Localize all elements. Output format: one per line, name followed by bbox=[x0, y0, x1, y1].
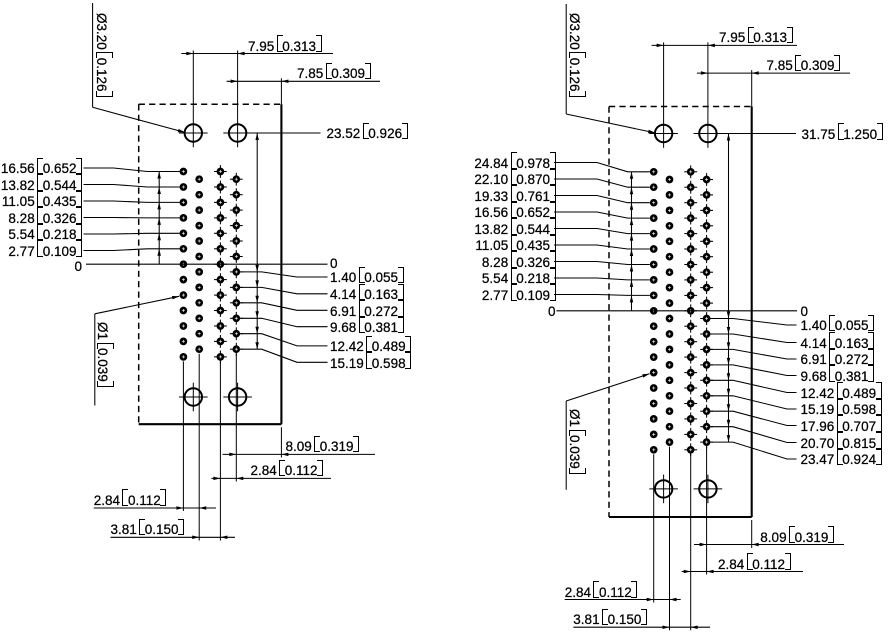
right dimension 7.85 [0.309] mounting hole to edge bbox=[697, 70, 850, 106]
row label 5.54 [0.218] left drawing bbox=[8, 228, 82, 242]
right note Ø3.20 [0.126] leader to mounting hole bbox=[566, 4, 655, 133]
right note Ø1 [0.039] leader to pin hole bbox=[566, 374, 649, 490]
row label 8.28 [0.326] right drawing bbox=[482, 256, 556, 270]
right leader lines from column 4 holes to right row labels bbox=[711, 319, 797, 460]
right mounting hole top-right Ø3.20 bbox=[699, 125, 716, 142]
row label 24.84 [0.978] right drawing bbox=[474, 157, 555, 171]
row label 0 left drawing (left side) bbox=[74, 260, 82, 274]
label Ø3.20 [0.126] left drawing (rotated) bbox=[94, 13, 108, 97]
label 2.84 [0.112] upper right drawing bbox=[718, 558, 791, 572]
row label 17.96 [0.707] right drawing bbox=[801, 420, 882, 434]
label 3.81 [0.150] left drawing bbox=[111, 523, 185, 537]
row label 13.82 [0.544] left drawing bbox=[1, 179, 82, 193]
label Ø1 [0.039] left drawing (rotated) bbox=[95, 322, 109, 387]
right dimension 2.84 [0.112] column 1 to column 2 bbox=[565, 598, 681, 601]
row label 11.05 [0.435] left drawing bbox=[2, 195, 82, 209]
right connector body outline (dashed top/left, solid right/bottom) bbox=[609, 107, 752, 518]
left dimension 2.84 [0.112] column 1 to column 2 bbox=[94, 506, 216, 510]
right dimension 8.09 [0.319] column 4 to edge bbox=[694, 520, 844, 548]
left dimension 3.81 [0.150] column 2 to column 3 bbox=[111, 536, 236, 540]
right pin hole column 1 (Ø1) bbox=[650, 168, 658, 454]
label 2.84 [0.112] upper left drawing bbox=[251, 464, 324, 478]
left dimension 7.95 [0.313] between mounting holes bbox=[181, 51, 333, 148]
label 7.85 [0.309] left drawing bbox=[297, 67, 371, 81]
row label 22.10 [0.870] right drawing bbox=[474, 173, 555, 187]
row label 2.77 [0.109] right drawing bbox=[482, 289, 556, 303]
right dimension 3.81 [0.150] column 2 to column 3 bbox=[573, 626, 710, 630]
row label 4.14 [0.163] left drawing bbox=[330, 288, 404, 302]
right stacked dimension arrows right (31.75 [1.250] and rows below row 0) bbox=[727, 134, 730, 443]
left stacked dimension arrows right (23.52 [0.926] and rows below row 0) bbox=[255, 133, 259, 349]
row label 2.77 [0.109] left drawing bbox=[8, 245, 82, 259]
label 7.85 [0.309] right drawing bbox=[767, 59, 841, 73]
label Ø3.20 [0.126] right drawing (rotated) bbox=[567, 13, 581, 97]
row label 13.82 [0.544] right drawing bbox=[474, 223, 555, 237]
row label 0 left drawing (right side) bbox=[330, 257, 338, 271]
left note Ø3.20 [0.126] leader to mounting hole bbox=[93, 3, 185, 132]
left pin hole column 4 (Ø1) bbox=[230, 173, 243, 356]
label 7.95 [0.313] left drawing bbox=[248, 40, 322, 54]
right row 0 datum line bbox=[557, 310, 798, 312]
right mounting hole centerline / leader to 31.75 [1.250] bbox=[649, 133, 796, 135]
label 23.52 [0.926] left drawing bbox=[327, 127, 408, 141]
row label 19.33 [0.761] right drawing bbox=[474, 190, 555, 204]
left stacked dimension arrows left (rows above row 0) bbox=[157, 172, 161, 265]
left row 0 datum line bbox=[86, 263, 328, 265]
left mounting hole bottom-left Ø3.20 bbox=[179, 383, 208, 412]
right extension lines from pin columns to bottom dimensions bbox=[654, 447, 707, 631]
left mounting hole bottom-right Ø3.20 bbox=[223, 383, 252, 412]
label 7.95 [0.313] right drawing bbox=[719, 31, 793, 45]
right pin hole column 2 (Ø1) bbox=[666, 176, 674, 446]
row label 9.68 [0.381] right drawing bbox=[801, 370, 875, 384]
row label 16.56 [0.652] left drawing bbox=[1, 162, 82, 176]
row label 15.19 [0.598] right drawing bbox=[801, 403, 882, 417]
label 8.09 [0.319] right drawing bbox=[760, 531, 834, 545]
right mounting hole bottom-left Ø3.20 bbox=[649, 475, 678, 504]
row label 1.40 [0.055] left drawing bbox=[330, 271, 404, 285]
left dimension 7.85 [0.309] mounting hole to edge bbox=[227, 78, 380, 104]
row label 5.54 [0.218] right drawing bbox=[482, 272, 556, 286]
left pin hole column 3 (Ø1) bbox=[214, 165, 227, 363]
left pin hole column 2 (Ø1) bbox=[195, 175, 203, 353]
label 8.09 [0.319] left drawing bbox=[286, 440, 360, 454]
left dimension 8.09 [0.319] column 4 to edge bbox=[223, 427, 376, 457]
row label 12.42 [0.489] right drawing bbox=[801, 387, 882, 401]
row label 20.70 [0.815] right drawing bbox=[801, 437, 882, 451]
left connector body outline (dashed top/left, solid right/bottom) bbox=[139, 104, 282, 424]
label 2.84 [0.112] lower right drawing bbox=[565, 586, 638, 600]
right mounting hole bottom-right Ø3.20 bbox=[694, 475, 723, 504]
right dimension 2.84 [0.112] column 3 to column 4 bbox=[682, 570, 803, 573]
row label 6.91 [0.272] right drawing bbox=[801, 353, 875, 367]
row label 1.40 [0.055] right drawing bbox=[801, 319, 875, 333]
left leader lines from column 4 holes to right row labels bbox=[241, 272, 328, 362]
left leader lines from left row labels to column 1 holes bbox=[84, 168, 180, 251]
left dimension 2.84 [0.112] column 3 to column 4 bbox=[211, 477, 331, 481]
label 31.75 [1.250] right drawing bbox=[802, 128, 883, 142]
left note Ø1 [0.039] leader to pin hole bbox=[95, 296, 179, 406]
right dimension 7.95 [0.313] between mounting holes bbox=[652, 42, 797, 147]
row label 15.19 [0.598] left drawing bbox=[330, 357, 411, 371]
right leader lines from left row labels to column 1 holes bbox=[554, 163, 650, 296]
row label 8.28 [0.326] left drawing bbox=[8, 212, 82, 226]
label 3.81 [0.150] right drawing bbox=[573, 613, 647, 627]
row label 0 right drawing (left side) bbox=[548, 305, 556, 319]
row label 12.42 [0.489] left drawing bbox=[330, 340, 411, 354]
right mounting hole top-left Ø3.20 bbox=[655, 125, 672, 142]
row label 23.47 [0.924] right drawing bbox=[801, 453, 882, 467]
left pin hole column 1 (Ø1) bbox=[180, 168, 188, 361]
row label 0 right drawing (right side) bbox=[801, 305, 809, 319]
row label 9.68 [0.381] left drawing bbox=[330, 321, 404, 335]
left extension lines from pin columns to bottom dimensions bbox=[183, 354, 236, 541]
right pin hole column 3 (Ø1) bbox=[684, 165, 697, 456]
left mounting hole top-right Ø3.20 bbox=[229, 124, 246, 141]
left mounting hole top-left Ø3.20 bbox=[185, 124, 202, 141]
label 2.84 [0.112] lower left drawing bbox=[94, 494, 167, 508]
left mounting hole centerline / leader to 23.52 [0.926] bbox=[179, 132, 321, 134]
right stacked dimension arrows left (rows above row 0) bbox=[630, 172, 633, 311]
row label 6.91 [0.272] left drawing bbox=[330, 305, 404, 319]
row label 11.05 [0.435] right drawing bbox=[475, 239, 555, 253]
right pin hole column 4 (Ø1) bbox=[700, 173, 713, 448]
row label 16.56 [0.652] right drawing bbox=[474, 206, 555, 220]
label Ø1 [0.039] right drawing (rotated) bbox=[567, 409, 581, 474]
row label 4.14 [0.163] right drawing bbox=[801, 337, 875, 351]
